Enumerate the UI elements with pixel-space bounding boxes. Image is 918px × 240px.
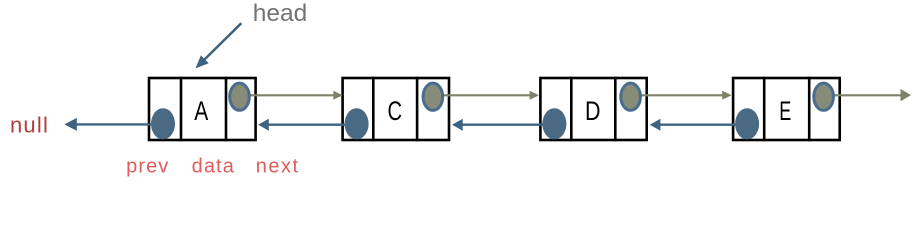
next pointer dot of node C xyxy=(423,83,443,110)
next pointer dot of node E xyxy=(814,83,834,110)
prev pointer dot of node A xyxy=(151,108,175,139)
svg-text:null: null xyxy=(10,112,49,137)
head pointer arrow xyxy=(196,23,242,68)
svg-text:E: E xyxy=(779,96,791,126)
next pointer dot of node A xyxy=(230,83,250,110)
svg-text:next: next xyxy=(256,156,300,178)
svg-text:head: head xyxy=(253,0,308,27)
svg-text:D: D xyxy=(585,96,601,126)
node E box xyxy=(733,77,840,142)
svg-text:C: C xyxy=(387,96,402,126)
next arrow E to right (tail) xyxy=(824,89,911,101)
prev pointer dot of node C xyxy=(345,108,369,139)
svg-text:data: data xyxy=(192,156,235,178)
svg-text:prev: prev xyxy=(126,156,169,178)
node A box xyxy=(149,77,256,142)
svg-text:A: A xyxy=(194,96,208,126)
node C box xyxy=(343,77,449,142)
prev pointer dot of node E xyxy=(735,108,759,139)
prev arrow E to D xyxy=(650,119,747,131)
null arrow (prev of A) xyxy=(64,118,163,131)
next arrow C to D xyxy=(433,91,539,100)
prev arrow D to C xyxy=(452,119,554,131)
prev pointer dot of node D xyxy=(542,108,566,139)
node D box xyxy=(540,77,646,142)
next arrow D to E xyxy=(631,91,732,100)
prev arrow C to A xyxy=(258,119,357,131)
next arrow A to C xyxy=(240,91,343,100)
next pointer dot of node D xyxy=(621,83,641,110)
